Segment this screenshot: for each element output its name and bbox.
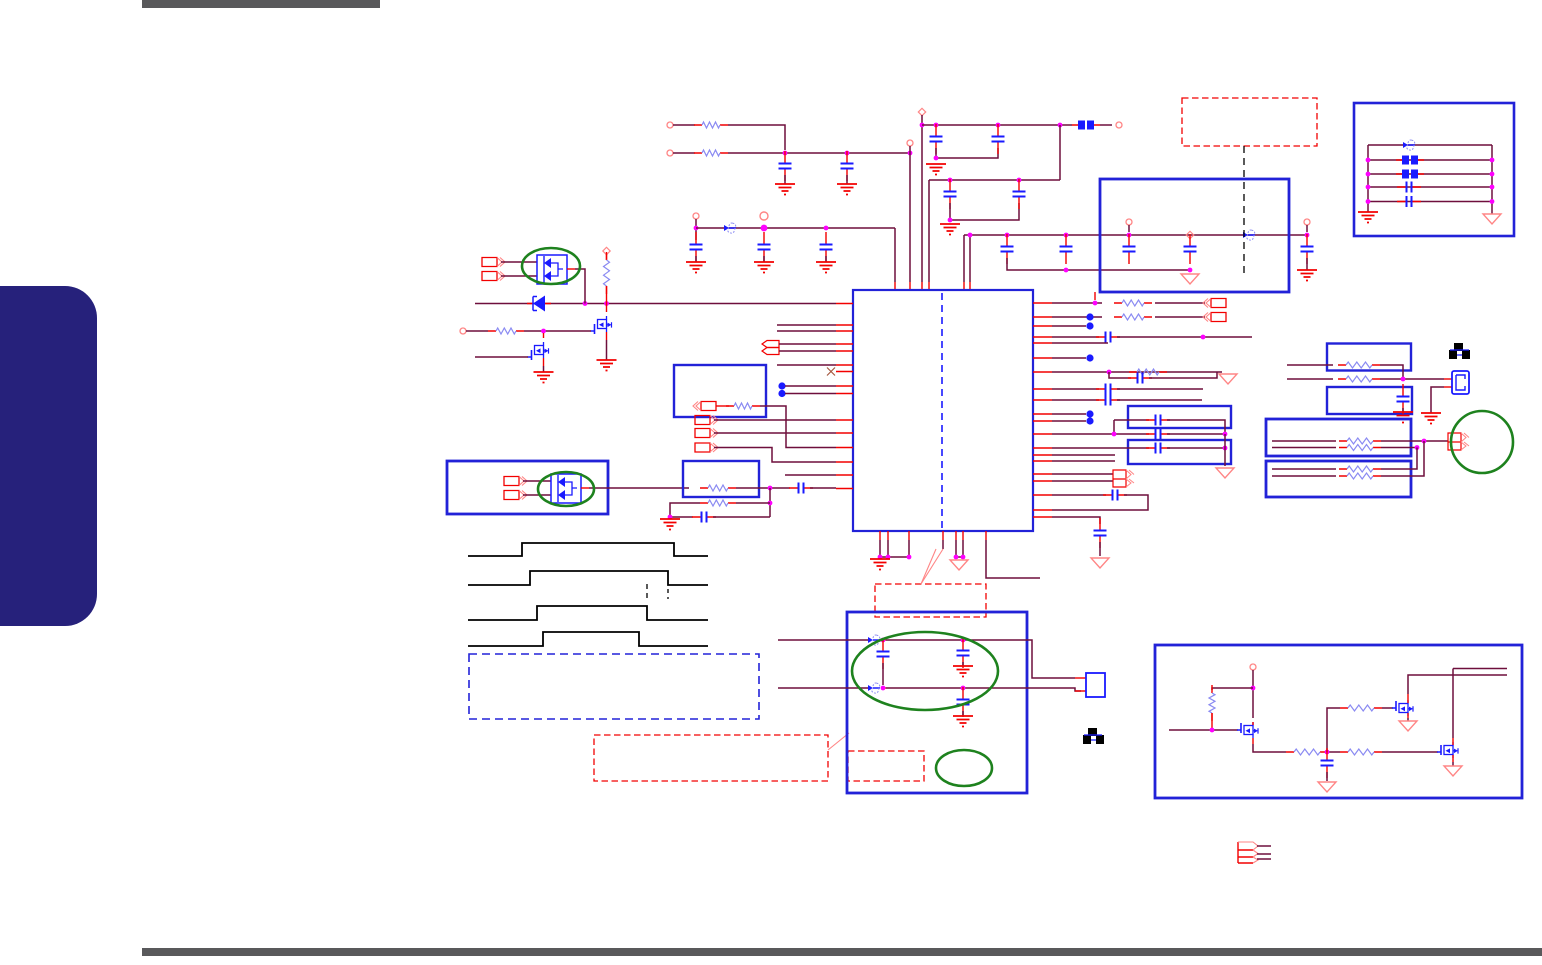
pin P12 — [1250, 664, 1256, 670]
pin P1 — [667, 122, 673, 128]
junction — [886, 555, 891, 560]
wire — [1117, 399, 1202, 401]
connector flag J9 — [1203, 313, 1226, 322]
wire — [1402, 408, 1404, 412]
capacitor C29 — [1397, 384, 1410, 414]
box group 10 — [1266, 461, 1411, 497]
transistor Q1 — [591, 316, 612, 334]
wire — [1272, 447, 1336, 449]
resistor R16 — [1339, 473, 1381, 479]
junction — [1005, 233, 1010, 238]
junction — [768, 486, 773, 491]
box group 12 (power switch) — [1155, 645, 1522, 798]
ferrite bead FB1 — [1072, 121, 1100, 130]
connector flag J10 — [1113, 470, 1134, 487]
wire rail — [696, 227, 895, 229]
wire — [1382, 751, 1438, 753]
connector flag J8 — [1203, 299, 1226, 308]
transistor Q2 — [528, 342, 549, 360]
wire — [962, 662, 964, 666]
wire — [714, 432, 836, 434]
logo glyph — [1449, 343, 1470, 359]
ground — [1399, 721, 1417, 731]
junction — [881, 686, 886, 691]
junction — [968, 233, 973, 238]
wire — [825, 256, 827, 262]
wire — [1052, 371, 1222, 373]
wire — [936, 148, 998, 158]
ground — [597, 360, 617, 371]
capacitor C2 — [841, 151, 854, 181]
wire — [846, 175, 848, 184]
wire — [1381, 441, 1424, 476]
diode D7 — [868, 682, 880, 694]
wire — [760, 406, 836, 448]
wire — [1117, 388, 1203, 390]
waveform trace 1 — [468, 543, 708, 556]
pin P9 — [760, 212, 768, 220]
box group 13 (power rail filter) — [1100, 179, 1289, 292]
wire — [673, 152, 695, 154]
wire — [1052, 494, 1106, 496]
wire — [887, 540, 889, 557]
wire — [956, 540, 963, 557]
connector flag J3 — [693, 402, 716, 411]
wire — [1052, 517, 1100, 524]
wire — [779, 350, 836, 352]
wire — [1272, 440, 1336, 442]
resistor R4 — [488, 328, 524, 334]
waveform cursor dashes — [646, 584, 648, 598]
side tab — [0, 286, 97, 626]
wire — [1306, 225, 1308, 232]
leader line — [921, 549, 936, 584]
junction — [1058, 123, 1063, 128]
capacitor C22 — [1096, 332, 1120, 343]
capacitor C20 — [1094, 518, 1107, 548]
waveform trace 2 — [468, 571, 708, 585]
wire — [1167, 447, 1225, 449]
capacitor C10 — [1184, 234, 1197, 264]
resistor R13 — [1339, 438, 1381, 444]
capacitor C16 — [692, 512, 716, 523]
capacitor C21 — [1103, 490, 1127, 501]
wire — [523, 494, 551, 496]
note box (red dashed) — [594, 735, 828, 781]
resistor R7 — [700, 500, 736, 506]
wire — [963, 235, 965, 282]
wire — [728, 152, 908, 154]
pin P3 — [907, 140, 913, 146]
wire — [1380, 365, 1403, 379]
ground — [686, 262, 706, 273]
wire — [1431, 387, 1444, 413]
ground — [1091, 558, 1109, 568]
capacitor C17 — [877, 639, 890, 669]
wire — [777, 324, 836, 326]
wire — [1052, 302, 1102, 304]
junction — [768, 501, 773, 506]
resistor R19 — [1340, 705, 1382, 711]
junction — [604, 301, 609, 306]
node dot — [778, 382, 785, 389]
junction — [1490, 172, 1495, 177]
IC U1 section divider — [941, 293, 943, 528]
IC right pin stubs — [1033, 303, 1052, 517]
leader line (black dashed) — [1243, 146, 1245, 277]
resistor R12 — [1338, 376, 1380, 382]
ground — [953, 716, 973, 727]
capacitor C15 — [789, 483, 813, 494]
wire — [1212, 688, 1253, 690]
connector flag J1B — [482, 272, 505, 281]
junction — [961, 686, 966, 691]
junction — [668, 515, 673, 520]
wire — [1257, 845, 1271, 847]
ferrite bead FB3 — [1396, 170, 1424, 179]
wire — [1167, 433, 1225, 435]
green highlight ellipse — [852, 632, 998, 710]
resistor R10 — [1129, 369, 1167, 375]
junction — [1490, 158, 1495, 163]
wire — [1252, 670, 1254, 718]
header bar — [142, 0, 380, 8]
connector flag J1A — [482, 258, 505, 267]
junction — [1366, 158, 1371, 163]
junction — [948, 178, 953, 183]
wire — [777, 364, 836, 366]
wire — [1052, 495, 1148, 510]
wire — [1272, 475, 1336, 477]
wire — [714, 448, 836, 463]
capacitor C31 — [1397, 196, 1421, 207]
resistor R3 — [604, 252, 610, 294]
logo glyph — [1083, 728, 1104, 744]
connector J12 — [1238, 842, 1258, 863]
wire — [1327, 708, 1340, 752]
ground — [940, 224, 960, 235]
capacitor C4 — [992, 124, 1005, 154]
junction — [1188, 268, 1193, 273]
note box (red dashed) — [875, 584, 986, 617]
wire — [886, 688, 1081, 691]
ground — [1318, 782, 1336, 792]
green highlight ellipse — [522, 248, 580, 284]
wire — [1257, 858, 1271, 860]
junction — [1422, 439, 1427, 444]
junction — [934, 156, 939, 161]
wire — [501, 261, 537, 263]
ground — [1483, 214, 1501, 224]
waveform trace 3 — [468, 606, 708, 620]
node dot — [1086, 417, 1093, 424]
wire left rail — [1367, 145, 1369, 212]
ground — [1181, 274, 1199, 284]
box group 8 — [1327, 387, 1412, 414]
wire — [1380, 378, 1444, 380]
box group 2 (input filter) — [447, 461, 608, 514]
resistor R18 — [1286, 749, 1328, 755]
junction — [907, 555, 912, 560]
wire — [714, 419, 836, 421]
pin P7 — [1304, 219, 1310, 225]
wire — [1052, 325, 1086, 327]
capacitor C27 — [1146, 429, 1170, 440]
junction — [694, 226, 699, 231]
wire — [1452, 762, 1454, 766]
diode D3 — [724, 222, 736, 234]
capacitor C14 — [820, 232, 833, 262]
capacitor C19 — [957, 687, 970, 717]
junction — [1366, 185, 1371, 190]
node dot — [1086, 313, 1093, 320]
leader line — [921, 549, 943, 584]
capacitor C18 — [957, 638, 970, 668]
wire — [1109, 372, 1131, 378]
wire net VIN — [475, 303, 836, 305]
junction — [1251, 686, 1256, 691]
box group 6 — [1128, 440, 1231, 464]
capacitor C3 — [930, 124, 943, 154]
junction — [761, 225, 768, 232]
pin P11 — [460, 328, 466, 334]
ground — [1421, 413, 1441, 424]
IC bottom pin stubs — [880, 531, 986, 540]
capacitor C8 — [1060, 234, 1073, 264]
pin P6 — [1126, 219, 1132, 225]
dual diode D5 — [551, 474, 581, 503]
junction — [783, 151, 788, 156]
capacitor C26 — [1146, 415, 1170, 426]
wire — [928, 180, 930, 282]
pin P2 — [667, 150, 673, 156]
wire — [1052, 413, 1086, 415]
pin P4 — [918, 108, 925, 115]
capacitor C7 — [1001, 234, 1014, 264]
node dot — [1086, 410, 1093, 417]
junction — [1127, 233, 1132, 238]
footer bar — [142, 948, 1542, 956]
wire — [880, 540, 909, 557]
junction — [1401, 377, 1406, 382]
junction — [1325, 750, 1330, 755]
ground — [754, 262, 774, 273]
wire — [882, 663, 884, 685]
junction — [1186, 231, 1193, 238]
wire — [1052, 316, 1102, 318]
ground — [816, 262, 836, 273]
wire — [1408, 675, 1507, 694]
wire — [777, 330, 836, 332]
wire — [728, 125, 785, 150]
wire — [785, 393, 836, 395]
connector flag J7B — [504, 491, 527, 500]
ground — [660, 519, 680, 530]
capacitor C12 — [690, 232, 703, 262]
wire — [1287, 378, 1333, 380]
connector flag J6 — [695, 443, 718, 452]
capacitor C28 — [1146, 443, 1170, 454]
junction — [1305, 233, 1310, 238]
wire — [962, 711, 964, 716]
wire — [1059, 125, 1061, 180]
wire — [695, 219, 697, 240]
junction — [961, 638, 966, 643]
resistor R5 — [726, 403, 760, 409]
wire — [523, 480, 551, 482]
leader line — [828, 733, 849, 750]
wire — [1052, 480, 1113, 482]
junction — [1490, 199, 1495, 204]
ground — [534, 372, 554, 383]
wire — [909, 146, 911, 282]
diode D6 — [868, 634, 880, 646]
junction — [878, 555, 883, 560]
note box (red dashed) — [1182, 98, 1317, 146]
junction — [996, 123, 1001, 128]
ground — [1216, 468, 1234, 478]
wire — [921, 115, 923, 282]
wire — [769, 488, 771, 517]
resistor R20 — [1340, 749, 1382, 755]
wire — [1368, 186, 1492, 188]
wire — [1052, 433, 1149, 435]
wire — [1100, 124, 1112, 126]
ground — [1358, 212, 1378, 223]
IC left pin stubs — [836, 304, 853, 489]
wire — [1167, 420, 1225, 434]
capacitor C5 — [944, 179, 957, 209]
wire — [575, 269, 585, 304]
green highlight ellipse — [538, 472, 594, 506]
wire — [1382, 707, 1393, 709]
junction — [1366, 172, 1371, 177]
diode D8 — [1403, 139, 1415, 151]
junction — [954, 555, 959, 560]
connector flag J4 — [695, 416, 718, 425]
wire — [942, 540, 944, 549]
wire — [779, 343, 836, 345]
wire VDD rail — [922, 124, 1072, 126]
capacitor C9 — [1123, 234, 1136, 264]
junction — [908, 151, 913, 156]
box group 11 (EMI filter) — [1354, 103, 1514, 236]
wire — [1326, 772, 1328, 781]
wire — [1113, 420, 1115, 434]
wire — [1052, 399, 1099, 401]
wire — [736, 487, 790, 489]
box group 1 — [674, 365, 766, 417]
wire — [543, 366, 545, 372]
wire — [1052, 342, 1108, 344]
ground — [1219, 374, 1237, 384]
capacitor C30 — [1397, 182, 1421, 193]
waveform trace 4 — [468, 632, 708, 646]
wire rail — [929, 179, 1060, 181]
wire — [1287, 364, 1333, 366]
wire — [1099, 542, 1101, 556]
node dot — [778, 390, 785, 397]
box group 7 — [1327, 344, 1411, 371]
connector flag J11 — [1448, 433, 1469, 450]
capacitor C32 — [1321, 748, 1334, 778]
wire — [1169, 729, 1238, 731]
wire — [1381, 447, 1417, 449]
green highlight ellipse — [936, 750, 992, 786]
ground — [870, 559, 890, 570]
wire — [1452, 669, 1454, 739]
box group 5 — [1128, 406, 1231, 428]
wire — [784, 175, 786, 184]
junction — [1112, 432, 1117, 437]
wire — [763, 256, 765, 262]
resistor R1 — [694, 122, 728, 128]
note box (red dashed) — [848, 751, 924, 781]
wire XTAL1 — [778, 639, 869, 641]
wire — [466, 330, 488, 332]
wire — [1368, 159, 1492, 161]
wire — [1253, 744, 1286, 752]
junction — [948, 218, 953, 223]
capacitor C13 — [758, 232, 771, 262]
junction — [1366, 199, 1371, 204]
wire — [589, 487, 689, 489]
wire — [713, 516, 770, 518]
capacitor C11 — [1301, 234, 1314, 264]
junction — [1093, 301, 1098, 306]
ground — [953, 666, 973, 677]
wire — [1117, 336, 1252, 338]
wire — [1114, 419, 1149, 421]
junction — [583, 301, 588, 306]
junction — [1490, 185, 1495, 190]
wire XTAL2 — [778, 687, 869, 689]
junction — [961, 555, 966, 560]
junction — [1223, 432, 1228, 437]
box group 9 — [1266, 419, 1411, 456]
wire — [1381, 440, 1448, 442]
wire — [1272, 468, 1336, 470]
junction — [1210, 728, 1215, 733]
wire — [1381, 448, 1417, 470]
node dot — [1086, 354, 1093, 361]
transistor Q4 — [1392, 700, 1413, 716]
wire — [606, 340, 608, 360]
ground — [1444, 766, 1462, 776]
wire right rail — [1491, 145, 1493, 214]
pin P5 — [1116, 122, 1122, 128]
junction — [934, 123, 939, 128]
ground — [1393, 412, 1413, 423]
ground — [837, 184, 857, 195]
junction — [1201, 335, 1206, 340]
note box (blue dashed) — [469, 654, 759, 719]
resistor R17 — [1209, 685, 1215, 721]
IC U1 — [853, 290, 1033, 531]
junction — [1064, 233, 1069, 238]
wire — [1149, 372, 1217, 378]
capacitor C23 — [1128, 373, 1152, 384]
box group 4 (oscillator) — [847, 612, 1027, 793]
junction — [1017, 178, 1022, 183]
wire — [1328, 751, 1340, 753]
wire — [1007, 258, 1190, 270]
crystal connector — [1075, 677, 1086, 679]
junction — [824, 226, 829, 231]
capacitor C24 — [1096, 384, 1120, 395]
wire — [1052, 357, 1086, 359]
junction — [1223, 446, 1228, 451]
